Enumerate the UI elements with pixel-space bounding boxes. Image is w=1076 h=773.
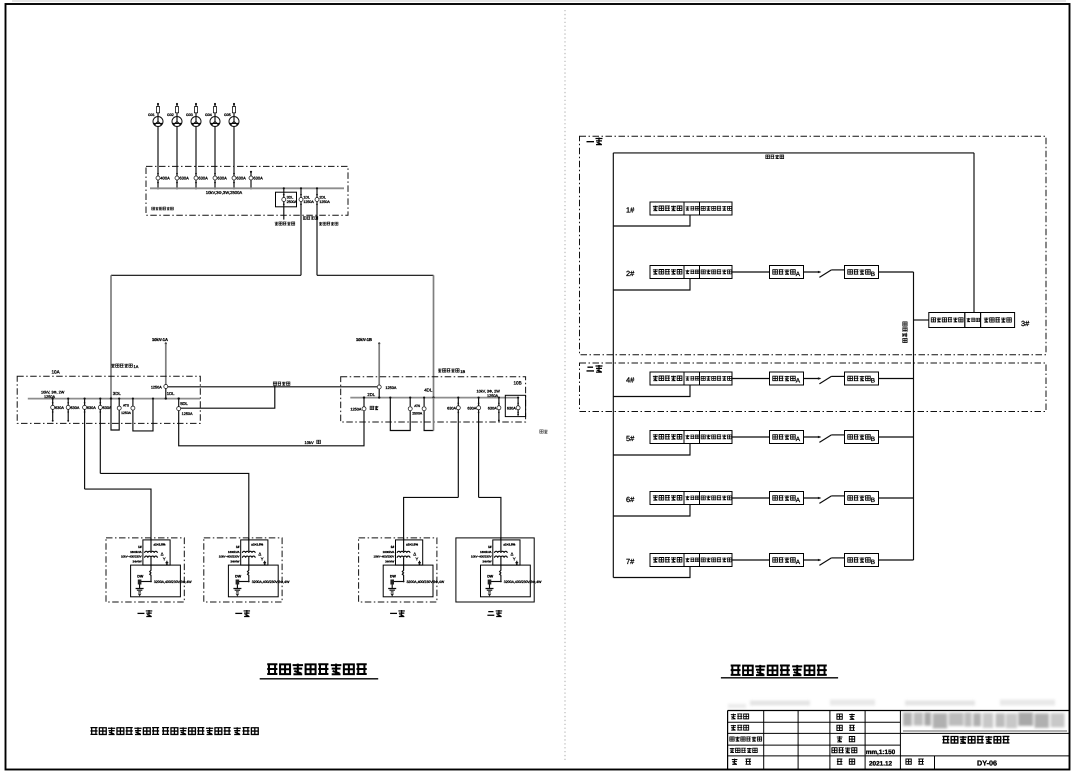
svg-text:1250A: 1250A [319,200,330,204]
spare tie breaker 1250A on bus B [350,396,378,411]
breaker 630A on G3 feeder [194,173,208,190]
incomer breaker 2DL 1250A [367,385,396,399]
phase-1 dashed enclosure [580,136,1047,354]
wire right bus to standby row [914,319,929,321]
10kV bus section B [350,397,518,399]
svg-text:7#: 7# [626,557,635,566]
svg-text:10kV,3Φ,3W,2500A: 10kV,3Φ,3W,2500A [206,190,243,195]
wire row 5# panel B to right bus [879,436,914,438]
svg-text:10kV-1A: 10kV-1A [152,337,168,342]
svg-text:10A: 10A [52,370,61,375]
svg-text:3DL: 3DL [287,196,294,200]
LV row 4# main transformer / tie / main LV system boxes [650,372,732,385]
svg-text:630A: 630A [467,406,476,410]
svg-text:ATS: ATS [123,403,129,407]
label link bus [766,155,784,159]
substation transformer T3 1600kVA box [359,538,445,602]
left drawing title: phase-2 power supply system diagram [260,664,379,679]
wire generator feeder B down-right to HV switchgear B [317,274,434,276]
cable label under enclosure left [303,216,318,219]
svg-text:G05: G05 [224,113,231,117]
phase-2 dashed enclosure [580,363,1047,412]
ATS bus tie pair 2500A on bus B [408,397,426,416]
metering breaker DL 2500A in solid cubicle box [276,187,298,219]
label phase-1 under substation T2 [235,610,250,617]
wire row 5# tie cabinet down to left bus [613,444,690,456]
wire row 1# tie cabinet down to left bus [613,215,690,226]
breaker 630A on G4 feeder [213,173,227,190]
svg-text:400A: 400A [160,176,170,181]
wire row 7# tie cabinet down to left bus [613,567,690,578]
svg-text:1A: 1A [134,364,139,369]
svg-text:630A: 630A [447,406,456,410]
svg-text:5#: 5# [626,434,635,443]
wire generator G3 to 10kV generator bus [195,127,197,189]
svg-text:4#: 4# [626,376,635,385]
svg-text:630A: 630A [507,406,516,410]
breaker 630A outgoing feeder 2 on bus A [66,398,80,422]
svg-text:630A: 630A [179,176,189,181]
svg-text:G01: G01 [148,113,155,117]
LV row 7# main transformer / tie / main LV system boxes [650,554,732,567]
wire row 6# tie cabinet down to left bus [613,505,690,517]
wire row 6# panel B to right bus [879,497,914,499]
left vertical bus of LV system [612,153,614,578]
svg-text:630A: 630A [488,406,497,410]
breaker 630A outgoing feeder 4 on bus B [507,397,520,416]
wire feeder A4 to substation 2 [100,473,249,540]
svg-text:630A: 630A [71,406,80,410]
svg-text:1250A: 1250A [385,386,396,390]
wire row 7# panel B to right bus [879,559,914,561]
10kV tie cable 5DL to switchgear B spare [179,411,364,446]
breaker 400A on G1 feeder [156,173,170,190]
stray small label near divider [540,430,548,434]
LV row 6# floor distribution panels A and B with transfer switch [770,492,879,505]
junction 3DL line on bus A [110,397,112,399]
bus B rating text [477,390,501,398]
top link bus horizontal [613,152,974,154]
wire generator G5 to 10kV generator bus [233,127,235,189]
wire row 6# LV system to floor panel A [732,497,770,499]
breaker 630A on G5 feeder [232,173,246,190]
label phase-1 under substation T1 [138,610,153,617]
wire row 4# tie cabinet down to left bus [613,385,690,397]
wire row 2# panel B to right bus [879,271,914,273]
svg-text:5DL: 5DL [180,401,188,406]
svg-text:1250A: 1250A [121,411,132,415]
label 630kW generator set feeder [275,222,295,226]
wire generator G2 to 10kV generator bus [176,127,178,189]
label drawing number [906,759,924,764]
breaker 630A on G2 feeder [175,173,189,190]
title block row labels column 1 [730,714,762,765]
svg-text:630A: 630A [87,406,96,410]
svg-text:4DL: 4DL [424,388,433,393]
svg-text:3#: 3# [1021,319,1030,328]
breaker 630A outgoing feeder 2 on bus B [467,397,480,498]
breaker 630A outgoing feeder 3 on bus A [83,398,97,490]
svg-text:1#: 1# [626,206,635,215]
svg-text:1DL: 1DL [303,196,310,200]
HV switchgear section 10B dashed enclosure [341,377,526,422]
wire link bus down to standby row [973,153,975,313]
breaker 2DL 1250A feeder to bus section B [315,187,330,275]
label HV switchgear 1A above box [111,364,139,369]
label phase-1 [587,138,603,145]
svg-text:1250A: 1250A [350,407,361,411]
right drawing title: LV distribution system diagram [721,665,838,678]
svg-text:DY-06: DY-06 [977,759,997,768]
svg-text:1250A: 1250A [303,200,314,204]
svg-text:630A: 630A [217,176,227,181]
tie cable label 10kV [305,440,321,445]
substation transformer T1 1600kVA box [106,538,192,602]
HV switchgear section 10A dashed enclosure [17,376,200,423]
title block row labels column 4 [832,714,857,765]
ATS bus tie pair 1250A on bus A [117,398,135,415]
faint watermark residue above title block [728,700,1055,709]
breaker 1DL 1250A feeder to bus section A [299,187,314,275]
svg-text:G04: G04 [205,113,212,117]
generator G1 with fuse link [148,103,163,127]
generator G4 with fuse link [205,103,220,127]
label diesel generator room [152,207,174,210]
svg-text:10kV-1B: 10kV-1B [356,337,372,342]
svg-text:1DL: 1DL [167,391,175,396]
vertical label link bus [903,322,908,343]
generator G2 with fuse link [167,103,182,127]
svg-text:10kV: 10kV [305,440,314,445]
LV row 2# floor distribution panels A and B with transfer switch [770,266,879,279]
svg-text:mm,1:150: mm,1:150 [866,749,896,756]
wire row 2# tie cabinet down to left bus [613,279,690,291]
LV row 2# main transformer / tie / main LV system boxes [650,266,732,279]
label HV switchgear 1B above box [438,369,466,374]
breaker 630A outgoing feeder 3 on bus B [488,397,501,422]
wire row 5# LV system to floor panel A [732,436,770,438]
incomer breaker 1DL 1250A [151,385,175,400]
wire feeder A3 to substation 1 [85,489,151,540]
cable label under enclosure right [319,222,338,225]
svg-text:1B: 1B [460,369,465,374]
svg-text:2500A: 2500A [412,411,423,415]
U-link under box B: ATS right pole to 4DL line [424,411,433,431]
wire row 4# panel B to right bus [879,378,914,380]
LV row 5# main transformer / tie / main LV system boxes [650,431,732,444]
wire row 7# LV system to floor panel A [732,559,770,561]
generator G3 with fuse link [186,103,201,127]
svg-text:G03: G03 [186,113,193,117]
svg-text:10B: 10B [514,380,522,385]
bus A rating text [41,391,65,399]
svg-text:2DL: 2DL [367,392,375,397]
junction 4DL line on bus B [432,396,434,430]
svg-text:2021.12: 2021.12 [869,760,893,767]
wire row 2# LV system to floor panel A [732,271,770,273]
wire feeder B1 to substation 3 [404,497,459,540]
LV row 1# main transformer / tie / main LV system boxes [650,202,732,215]
svg-text:630A: 630A [55,406,64,410]
svg-text:2500A: 2500A [287,200,298,204]
diesel generator room dashed enclosure [146,166,348,215]
tie tap down to 5DL node [181,387,275,408]
svg-text:2#: 2# [626,269,635,278]
wire row 4# LV system to floor panel A [732,378,770,380]
U-link under box B: bus riser to ATS left pole [389,397,410,431]
wire generator G4 to 10kV generator bus [214,127,216,189]
wire 10kV incoming 1A [165,342,167,384]
standby row 3# boxes: standby LV system / tie / standby transformer [929,313,1015,328]
wire generator feeder A down-left to HV switchgear A [111,274,301,276]
svg-text:G02: G02 [167,113,174,117]
HV tie label [273,382,290,386]
svg-text:1250A: 1250A [487,394,498,398]
svg-text:630A: 630A [253,176,263,181]
LV row 6# main transformer / tie / main LV system boxes [650,492,732,505]
centre divider line [564,10,566,760]
svg-text:630A: 630A [198,176,208,181]
drawing name: power supply system diagram [942,736,1009,743]
substation transformer T2 1600kVA box [204,538,290,602]
spare 630A breaker feeder on generator bus [249,171,263,190]
wire feeder B2 to substation 4 [479,497,501,540]
svg-text:6#: 6# [626,495,635,504]
title block frame [728,711,1070,770]
company underline [903,730,1067,732]
label phase-2 under substation T4 [487,610,502,617]
svg-text:1250A: 1250A [151,386,162,390]
svg-text:2DL: 2DL [319,196,326,200]
breaker 630A outgoing feeder 1 on bus A [51,398,65,422]
tie U-link under box: 3DL line to ATS left pole [111,399,119,430]
svg-text:1250A: 1250A [182,412,193,416]
wire 10kV incoming 1B [378,342,380,385]
LV row 5# floor distribution panels A and B with transfer switch [770,431,879,444]
substation transformer T4 1600kVA box [456,538,542,602]
spare feeder solid cubicle box on bus B [505,395,525,416]
label phase-1 under substation T3 [390,610,405,617]
breaker 630A outgoing feeder 1 on bus B [447,397,460,498]
tie U-link under box: ATS right pole to bus riser [133,399,153,431]
note text bottom left [90,727,258,735]
svg-text:630A: 630A [236,176,246,181]
svg-text:3DL: 3DL [113,391,122,396]
svg-text:ATS: ATS [414,404,420,408]
label phase-2 [587,365,603,372]
10kV bus section A [28,398,200,400]
feeder breaker 5DL 1250A [177,397,193,416]
right vertical bus of LV system [913,272,915,560]
LV row 4# floor distribution panels A and B with transfer switch [770,372,879,385]
breaker 630A outgoing feeder 4 on bus A [98,398,112,474]
generator G5 with fuse link [224,103,239,127]
LV row 7# floor distribution panels A and B with transfer switch [770,554,879,567]
HV tie wire 1DL to 2DL [168,386,377,388]
wire generator G1 to 10kV generator bus [157,127,159,189]
10kV generator paralleling bus 2500A [150,187,344,189]
